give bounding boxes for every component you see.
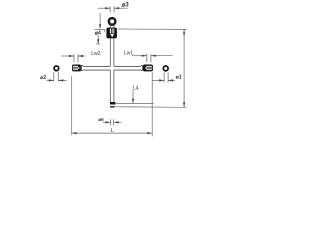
svg-text:L4: L4: [133, 85, 139, 91]
svg-text:⌀4: ⌀4: [95, 30, 101, 36]
svg-text:L: L: [111, 128, 114, 134]
svg-text:⌀3: ⌀3: [122, 3, 130, 9]
svg-text:Lw1: Lw1: [124, 51, 133, 57]
svg-text:⌀1: ⌀1: [176, 74, 182, 80]
svg-text:Lw2: Lw2: [91, 51, 100, 57]
svg-text:⌀6: ⌀6: [98, 117, 104, 122]
svg-text:⌀2: ⌀2: [40, 75, 46, 81]
